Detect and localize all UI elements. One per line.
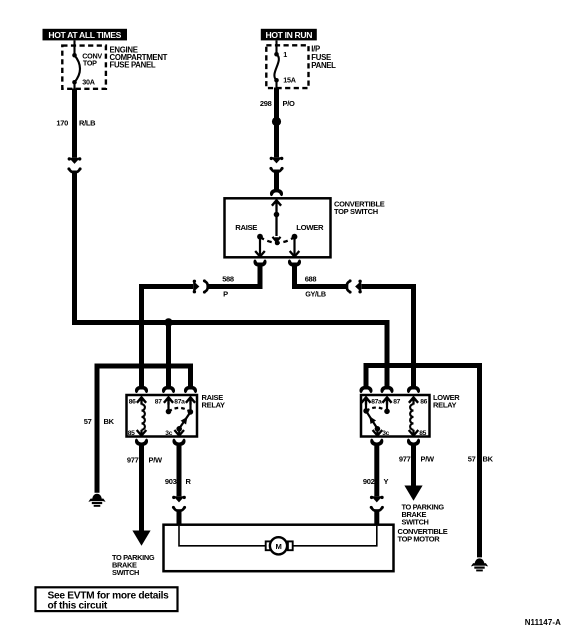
lower relay bottom labels 3c 85 <box>382 430 426 437</box>
wire 903 R <box>177 444 182 497</box>
svg-text:1: 1 <box>283 50 287 59</box>
wire 977 P/W right with arrow to parking brake switch <box>404 444 422 501</box>
svg-text:87: 87 <box>155 399 162 406</box>
svg-text:P: P <box>223 290 228 299</box>
branch to raise relay pin 87 <box>166 323 171 390</box>
svg-text:903: 903 <box>165 477 177 486</box>
raise relay pin labels <box>129 399 185 406</box>
label I/P FUSE PANEL <box>311 45 336 70</box>
svg-text:BK: BK <box>483 454 494 463</box>
svg-text:3c: 3c <box>165 430 172 437</box>
label 688 GY/LB <box>305 274 326 298</box>
svg-text:86: 86 <box>420 399 427 406</box>
svg-text:Y: Y <box>384 477 389 486</box>
label 977 P/W left <box>127 455 163 464</box>
raise relay dashed armature arc <box>169 408 191 412</box>
svg-text:57: 57 <box>468 454 476 463</box>
svg-text:BK: BK <box>104 417 115 426</box>
svg-text:3c: 3c <box>382 430 389 437</box>
raise relay pin 87a stem and node <box>188 397 194 415</box>
svg-text:TOP: TOP <box>83 59 97 68</box>
svg-text:P/O: P/O <box>283 99 295 108</box>
svg-text:298: 298 <box>260 99 272 108</box>
label 903 R <box>165 477 192 486</box>
svg-text:87: 87 <box>393 399 400 406</box>
raise relay pin 87 stem and node <box>166 397 172 414</box>
raise relay pin 87a bell <box>184 386 197 405</box>
svg-text:N11147-A: N11147-A <box>525 618 561 627</box>
switch pin bells at bottom edge <box>253 259 301 266</box>
svg-text:of this circuit: of this circuit <box>48 600 108 611</box>
fuse 1 15A <box>274 41 279 89</box>
lower relay pin 3c bell <box>370 439 383 446</box>
lower relay pin 87a bell <box>359 386 372 405</box>
svg-text:TOP MOTOR: TOP MOTOR <box>398 535 441 544</box>
label CONVERTIBLE TOP SWITCH <box>334 200 385 216</box>
svg-text:170: 170 <box>56 119 68 128</box>
fuse CONV TOP 30A <box>72 41 80 90</box>
wire 57 BK left: raise relay 87a to ground <box>97 366 191 493</box>
splice dot on wire 298 <box>272 117 281 126</box>
wire 298 P/O upper segment <box>274 88 279 158</box>
label TO PARKING BRAKE SWITCH right <box>402 503 445 527</box>
label 57 BK right <box>468 454 494 463</box>
lower relay pin 87 bell <box>380 386 393 405</box>
raise relay pin 3c bell <box>172 439 185 446</box>
label 298 P/O <box>260 99 295 108</box>
inline connector on wire 298 <box>269 157 283 172</box>
note box: See EVTM <box>36 587 178 611</box>
svg-text:HOT IN RUN: HOT IN RUN <box>265 30 312 40</box>
label LOWER RELAY <box>433 393 460 409</box>
node RAISE contact <box>255 234 265 257</box>
switch wiper dashed arc <box>260 237 295 243</box>
svg-text:R/LB: R/LB <box>79 119 96 128</box>
raise relay coil 86-85 <box>137 404 147 435</box>
svg-text:TOP SWITCH: TOP SWITCH <box>334 207 378 216</box>
label 57 BK left <box>84 417 115 426</box>
power label HOT AT ALL TIMES <box>43 29 128 41</box>
wire 977 P/W left with arrow to parking brake switch <box>132 444 150 546</box>
label 977 P/W right <box>399 454 435 463</box>
wire 170 R/LB lower segment + hot rail to relay 87 pins <box>75 171 388 390</box>
fuse value labels <box>82 52 102 87</box>
svg-text:GY/LB: GY/LB <box>305 290 326 299</box>
node wiper center <box>275 241 280 246</box>
svg-text:86: 86 <box>129 399 136 406</box>
svg-text:RELAY: RELAY <box>433 400 457 409</box>
label 588 P <box>222 274 234 298</box>
svg-text:85: 85 <box>128 430 135 437</box>
svg-text:R: R <box>186 477 192 486</box>
wire 588 P : switch to raise relay pin 86 <box>206 263 260 287</box>
svg-text:RAISE: RAISE <box>235 223 257 232</box>
switch common feed arrow and stem <box>272 200 281 241</box>
ground left <box>88 494 105 507</box>
svg-text:FUSE PANEL: FUSE PANEL <box>110 61 156 70</box>
svg-text:30A: 30A <box>82 78 94 87</box>
raise relay pin 86 bell <box>135 386 148 405</box>
labels RAISE LOWER <box>235 223 324 232</box>
svg-text:588: 588 <box>222 274 234 283</box>
lower relay moving contact 87a-3c <box>366 411 382 435</box>
raise relay bottom labels 85 3c <box>128 430 173 437</box>
label CONVERTIBLE TOP MOTOR <box>398 527 448 543</box>
svg-text:P/W: P/W <box>149 455 163 464</box>
connector into switch top <box>270 189 283 196</box>
raise relay pin 85 bell <box>135 439 148 446</box>
svg-text:LOWER: LOWER <box>296 223 324 232</box>
svg-text:902: 902 <box>363 477 375 486</box>
label 902 Y <box>363 477 389 486</box>
convertible top switch box <box>225 198 331 257</box>
label ENGINE COMPARTMENT FUSE PANEL <box>110 46 168 70</box>
svg-text:PANEL: PANEL <box>311 61 336 70</box>
lower relay pin 85 bell <box>407 439 420 446</box>
motor internal wiring left <box>179 526 267 546</box>
svg-text:HOT AT ALL TIMES: HOT AT ALL TIMES <box>48 30 121 40</box>
wire 170 R/LB upper segment <box>72 89 77 158</box>
lower relay pin labels <box>371 399 427 406</box>
svg-text:SWITCH: SWITCH <box>112 568 139 577</box>
svg-text:M: M <box>276 542 282 551</box>
svg-text:15A: 15A <box>283 75 295 84</box>
wire 902 Y <box>374 444 379 497</box>
lower relay box <box>361 395 430 437</box>
label 170 R/LB <box>56 119 96 128</box>
motor internal wiring right <box>292 526 377 546</box>
wire 57 BK right: lower relay 87a to ground <box>366 366 480 558</box>
svg-text:87a: 87a <box>174 399 185 406</box>
ground right <box>471 558 488 571</box>
lower relay pin 86 bell <box>407 386 420 405</box>
lower relay coil 86-85 <box>409 404 419 435</box>
wire 688 GY/LB : switch to lower relay pin 86 <box>295 263 349 287</box>
svg-text:688: 688 <box>305 274 317 283</box>
svg-text:SWITCH: SWITCH <box>402 517 429 526</box>
convertible top motor box <box>164 525 394 572</box>
node LOWER contact <box>290 234 300 257</box>
lower relay dashed armature arc <box>366 408 387 412</box>
motor M1 <box>266 537 293 554</box>
label RAISE RELAY <box>202 393 226 409</box>
inline connector on wire 902 <box>370 496 384 511</box>
wire 298 to switch <box>274 170 279 191</box>
inline connector on wire 903 <box>172 496 186 511</box>
svg-text:P/W: P/W <box>421 454 435 463</box>
svg-text:57: 57 <box>84 417 92 426</box>
inline connector on wire 170 <box>67 157 81 172</box>
engine compartment fuse panel (dashed box) <box>62 46 106 89</box>
label TO PARKING BRAKE SWITCH left <box>112 553 155 577</box>
svg-text:85: 85 <box>419 430 426 437</box>
lower relay pin 87a stem and node <box>363 397 369 414</box>
raise relay box <box>127 395 198 437</box>
junction node on hot rail <box>164 318 172 326</box>
svg-text:RELAY: RELAY <box>202 400 226 409</box>
svg-text:87a: 87a <box>371 399 382 406</box>
svg-text:977: 977 <box>127 455 139 464</box>
power label HOT IN RUN <box>261 29 317 41</box>
svg-text:977: 977 <box>399 454 411 463</box>
lower relay pin 87 stem and node <box>384 397 390 414</box>
inline connector on wire 588 <box>193 279 208 293</box>
inline connector on wire 688 <box>347 279 362 293</box>
I/P fuse panel (dashed box) <box>266 45 308 88</box>
raise relay pin 87 bell <box>162 386 175 405</box>
raise relay moving contact 87a-3c <box>174 412 190 435</box>
